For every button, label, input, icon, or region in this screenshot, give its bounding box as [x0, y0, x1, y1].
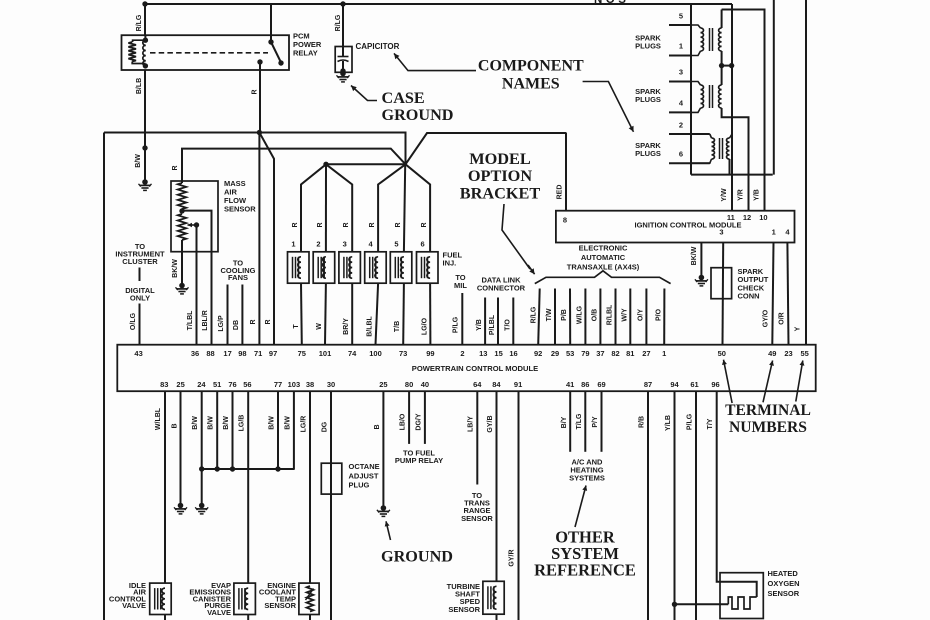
- annotation arrow to spark plugs (component names): [583, 82, 634, 132]
- MAF resistor lower (potentiometer): [178, 214, 186, 240]
- wire W injector 2 to PCM: [324, 283, 327, 345]
- svg-text:Y: Y: [795, 326, 802, 331]
- svg-text:R/LG: R/LG: [136, 14, 143, 31]
- svg-text:SENSOR: SENSOR: [264, 601, 296, 610]
- wire R relay output down to bus junction: [259, 62, 261, 133]
- svg-text:71: 71: [254, 349, 262, 358]
- MAF junction dot: [179, 208, 184, 213]
- svg-text:CAPICITOR: CAPICITOR: [356, 42, 400, 51]
- svg-text:SENSOR: SENSOR: [461, 514, 493, 523]
- svg-text:73: 73: [399, 349, 407, 358]
- fuel injector 1: [288, 252, 310, 283]
- wire R/LBL transaxle to PCM: [615, 289, 617, 345]
- svg-text:PLUGS: PLUGS: [635, 41, 661, 50]
- junction dot 24: [199, 466, 204, 471]
- wire BK/W ICM to ground: [700, 243, 702, 277]
- ground for PCM 25 second: [381, 505, 387, 511]
- svg-text:PLUGS: PLUGS: [635, 149, 661, 158]
- svg-text:O/Y: O/Y: [637, 309, 644, 321]
- svg-text:101: 101: [319, 349, 332, 358]
- wire DG PCM 30: [330, 391, 332, 620]
- ground for ICM: [699, 275, 705, 281]
- wire coil 1-5 primary to Y/B drop: [722, 10, 765, 175]
- svg-text:OPTION: OPTION: [468, 166, 532, 185]
- relay coil: [144, 36, 146, 40]
- wire P/Y PCM 69 to A/C: [601, 391, 603, 452]
- svg-text:79: 79: [581, 349, 589, 358]
- valve EVAP EMISSIONS CANISTER PURGE box: [234, 583, 256, 614]
- wire R to PCM terminal 71: [258, 133, 260, 345]
- svg-text:W/LG: W/LG: [576, 305, 583, 324]
- wire B/W PCM 103: [293, 391, 296, 469]
- svg-text:2: 2: [460, 349, 464, 358]
- svg-text:49: 49: [768, 349, 776, 358]
- svg-text:6: 6: [679, 150, 683, 159]
- wire P/LG PCM 61: [695, 391, 697, 620]
- svg-text:B: B: [374, 424, 381, 429]
- svg-text:B/Y: B/Y: [561, 416, 568, 428]
- junction dot O2 signal: [672, 602, 677, 607]
- junction dot R / bracket bus: [257, 130, 262, 135]
- svg-text:96: 96: [711, 380, 719, 389]
- wire O/R ICM 4 to PCM 23: [787, 243, 788, 345]
- svg-text:92: 92: [534, 349, 542, 358]
- annotation arrow to terminal 50: [724, 360, 733, 403]
- svg-text:17: 17: [223, 349, 231, 358]
- svg-text:VALVE: VALVE: [122, 601, 146, 610]
- svg-text:R: R: [395, 222, 402, 227]
- wire O2 signal to sensor: [675, 603, 729, 605]
- module U2 IGNITION CONTROL MODULE box: [556, 211, 795, 243]
- svg-text:10: 10: [759, 213, 767, 222]
- wire feed to injector 4: [378, 164, 405, 252]
- wire Y/W to ICM 11: [731, 175, 733, 211]
- capacitor case ground dot: [340, 68, 345, 73]
- svg-text:82: 82: [611, 349, 619, 358]
- svg-text:R/LBL: R/LBL: [607, 304, 614, 325]
- svg-text:3: 3: [343, 240, 347, 249]
- junction dot 76: [230, 466, 235, 471]
- svg-text:100: 100: [369, 349, 382, 358]
- svg-text:P/LG: P/LG: [687, 413, 694, 430]
- svg-text:R/B: R/B: [639, 416, 646, 428]
- spark plug terminal 6 stub: [669, 162, 710, 164]
- svg-text:12: 12: [743, 213, 751, 222]
- svg-text:CONNECTOR: CONNECTOR: [477, 283, 526, 292]
- svg-text:B/W: B/W: [223, 416, 230, 430]
- wire BR/Y injector 3 to PCM: [351, 283, 353, 345]
- annotation arrow to A/C systems: [575, 486, 586, 528]
- svg-text:8: 8: [563, 216, 567, 225]
- svg-text:MIL: MIL: [454, 281, 467, 290]
- svg-text:LG/P: LG/P: [218, 315, 225, 332]
- fuel injector 6: [417, 252, 439, 283]
- svg-text:INJ.: INJ.: [443, 259, 457, 268]
- coil pack outer box left edge: [690, 4, 692, 175]
- wire B/W PCM 77: [277, 391, 279, 469]
- svg-text:80: 80: [405, 380, 413, 389]
- svg-text:53: 53: [566, 349, 574, 358]
- svg-text:B/LBL: B/LBL: [367, 315, 374, 336]
- junction dot bus / R-LG relay feed: [142, 1, 147, 6]
- svg-text:NOS: NOS: [594, 0, 629, 6]
- svg-text:R: R: [317, 222, 324, 227]
- svg-text:HEATED: HEATED: [768, 569, 799, 578]
- spark plug terminal 4 stub: [669, 111, 691, 113]
- svg-text:91: 91: [514, 380, 522, 389]
- svg-text:74: 74: [348, 349, 357, 358]
- svg-text:1: 1: [679, 42, 683, 51]
- wire LB/Y PCM 64 to trans range sensor: [476, 391, 478, 484]
- wire feed to injector 1: [301, 164, 326, 252]
- wire bracket top edge (model option bracket): [104, 133, 406, 165]
- svg-text:41: 41: [566, 380, 574, 389]
- annotation arrow to capacitor (component names): [394, 53, 476, 70]
- svg-text:B/W: B/W: [192, 416, 199, 430]
- relay dashed link: [150, 52, 268, 54]
- wire LG/B PCM 56 to EVAP valve: [247, 391, 249, 583]
- wire B/W ground bus: [202, 468, 295, 470]
- svg-text:B/W: B/W: [135, 154, 142, 168]
- junction dot bus / R-LG capacitor feed: [340, 1, 345, 6]
- svg-text:PLUGS: PLUGS: [635, 95, 661, 104]
- svg-text:MODEL: MODEL: [469, 149, 531, 168]
- wire R branch to PCM terminal 97: [259, 133, 274, 345]
- svg-text:LG/R: LG/R: [301, 416, 308, 433]
- wire T/LBL MAF to PCM 36: [196, 252, 198, 345]
- capacitor C1 box: [335, 47, 352, 73]
- wire Y/LB PCM 94: [674, 391, 676, 620]
- svg-text:16: 16: [509, 349, 517, 358]
- svg-text:R: R: [369, 222, 376, 227]
- spark plug terminal 5 stub: [669, 24, 691, 26]
- ground for relay B/W: [142, 179, 148, 185]
- case ground symbol: [340, 71, 346, 77]
- wire O/Y transaxle to PCM: [645, 289, 647, 345]
- wire T/O data link connector to PCM: [512, 298, 514, 345]
- svg-text:30: 30: [327, 380, 335, 389]
- svg-text:W: W: [316, 323, 323, 330]
- relay K1 PCM POWER RELAY box: [122, 35, 290, 70]
- wire W/Y transaxle to PCM: [629, 289, 631, 345]
- wire R from bus to MAF sensor: [182, 149, 406, 183]
- annotation arrow to terminal 55: [796, 361, 803, 402]
- svg-text:Y/R: Y/R: [738, 189, 745, 201]
- svg-text:B/W: B/W: [285, 416, 292, 430]
- wire ignition supply drop: [731, 4, 733, 175]
- wire Y/B to ICM 10: [764, 175, 766, 211]
- svg-text:25: 25: [176, 380, 184, 389]
- svg-text:25: 25: [379, 380, 387, 389]
- svg-text:OCTANE: OCTANE: [349, 462, 380, 471]
- junction dot 51: [215, 466, 220, 471]
- svg-text:B: B: [172, 423, 179, 428]
- sensor MASS AIR FLOW box: [171, 181, 218, 252]
- svg-text:84: 84: [492, 380, 501, 389]
- svg-text:P/LG: P/LG: [453, 316, 460, 333]
- svg-text:O/B: O/B: [591, 309, 598, 321]
- svg-text:P/O: P/O: [655, 308, 662, 321]
- wire P/LBL data link connector to PCM: [497, 298, 499, 345]
- svg-text:11: 11: [727, 213, 735, 222]
- svg-text:R: R: [172, 165, 179, 170]
- relay switch: [268, 39, 273, 44]
- svg-text:COMPONENT: COMPONENT: [478, 58, 584, 75]
- svg-text:LG/B: LG/B: [239, 415, 246, 432]
- svg-text:6: 6: [421, 240, 425, 249]
- connector SPARK OUTPUT CHECK CONN box: [711, 268, 732, 299]
- svg-text:CONN: CONN: [738, 292, 760, 301]
- MAF wiper: [194, 222, 199, 227]
- MAF branch to terminal 88: [182, 211, 212, 252]
- svg-text:56: 56: [243, 380, 251, 389]
- svg-text:NAMES: NAMES: [502, 76, 560, 93]
- wire BK/W MAF to ground: [181, 240, 183, 284]
- wire DB to PCM 98: [241, 285, 243, 345]
- wire bracket left edge: [103, 133, 105, 620]
- svg-text:R: R: [250, 319, 257, 324]
- wire LG/P to PCM 17: [227, 285, 229, 345]
- wire B/W PCM 51: [216, 391, 218, 469]
- svg-text:99: 99: [426, 349, 434, 358]
- wire DG/Y PCM 40 to fuel pump relay: [424, 391, 426, 444]
- wire T/Y PCM 96 to oxygen sensor: [717, 391, 757, 597]
- svg-text:OXYGEN: OXYGEN: [768, 579, 800, 588]
- fuel injector 3: [339, 252, 361, 283]
- wire feed to injector 3: [326, 164, 352, 252]
- wire W/LG transaxle to PCM: [584, 289, 586, 345]
- wire O/LG to PCM 43: [139, 304, 141, 345]
- svg-text:75: 75: [298, 349, 306, 358]
- ignition coil 3-4 secondary: [691, 82, 701, 86]
- svg-text:GROUND: GROUND: [382, 106, 454, 124]
- ground for MAF: [179, 283, 185, 289]
- svg-text:43: 43: [134, 349, 142, 358]
- spark plug terminal 1 stub: [669, 55, 691, 57]
- fuel injector 5: [390, 252, 412, 283]
- svg-text:76: 76: [228, 380, 236, 389]
- svg-text:36: 36: [191, 349, 199, 358]
- svg-text:1: 1: [772, 228, 776, 237]
- svg-text:R: R: [292, 222, 299, 227]
- svg-text:W/Y: W/Y: [621, 308, 628, 322]
- wire B/LBL injector 4 to PCM: [376, 283, 379, 345]
- wire B PCM 25 to ground: [180, 391, 182, 504]
- svg-text:LB/Y: LB/Y: [468, 416, 475, 432]
- svg-text:3: 3: [719, 228, 723, 237]
- svg-text:51: 51: [213, 380, 221, 389]
- ignition coil 2-6 primary: [730, 134, 733, 138]
- junction dot 77: [275, 466, 280, 471]
- ground for PCM 25: [178, 503, 184, 509]
- wire P/LG to PCM 2: [461, 293, 463, 345]
- module U1 POWERTRAIN CONTROL MODULE box: [117, 345, 815, 392]
- svg-text:BR/Y: BR/Y: [343, 318, 350, 335]
- svg-text:FANS: FANS: [228, 273, 248, 282]
- svg-text:DG: DG: [322, 421, 329, 432]
- junction dot injector feed group 1-3: [323, 162, 328, 167]
- wire R/LG to capacitor: [342, 4, 344, 47]
- svg-text:T/Y: T/Y: [707, 418, 714, 429]
- svg-text:27: 27: [642, 349, 650, 358]
- wire injector feed crossbar: [326, 163, 406, 165]
- wire GY/O ICM 1 to PCM 49: [772, 243, 773, 345]
- svg-text:DB: DB: [233, 320, 240, 330]
- svg-text:GROUND: GROUND: [381, 548, 453, 566]
- svg-text:SYSTEMS: SYSTEMS: [569, 473, 605, 482]
- svg-text:5: 5: [679, 12, 683, 21]
- svg-text:1: 1: [662, 349, 666, 358]
- svg-text:94: 94: [670, 380, 679, 389]
- fragment of cropped text at top edge: [594, 0, 629, 6]
- svg-text:RELAY: RELAY: [293, 49, 318, 58]
- wire GY/B PCM 84 to turbine shaft speed sensor: [496, 391, 498, 581]
- wire P/O transaxle to PCM: [663, 289, 665, 345]
- svg-text:2: 2: [679, 121, 683, 130]
- svg-text:O/R: O/R: [779, 312, 786, 324]
- wire feed to injector 6: [406, 164, 431, 252]
- svg-text:PUMP RELAY: PUMP RELAY: [395, 456, 443, 465]
- svg-text:1: 1: [291, 240, 295, 249]
- svg-text:Y/LB: Y/LB: [665, 415, 672, 431]
- svg-text:64: 64: [473, 380, 482, 389]
- svg-text:T/B: T/B: [394, 321, 401, 332]
- svg-text:5: 5: [394, 240, 398, 249]
- ignition coil 3-4 core: [709, 85, 711, 108]
- svg-text:GY/B: GY/B: [487, 415, 494, 432]
- annotation arrow to case ground: [351, 86, 377, 101]
- svg-text:87: 87: [644, 380, 652, 389]
- wire GY/R PCM 91: [518, 391, 520, 620]
- svg-text:83: 83: [160, 380, 168, 389]
- svg-text:29: 29: [551, 349, 559, 358]
- wire O/B transaxle to PCM: [599, 289, 601, 345]
- svg-text:55: 55: [801, 349, 809, 358]
- svg-text:BRACKET: BRACKET: [460, 184, 541, 203]
- svg-text:GY/O: GY/O: [763, 309, 770, 327]
- svg-text:97: 97: [269, 349, 277, 358]
- wire EVAP valve lower stub: [247, 615, 249, 620]
- svg-text:2: 2: [316, 240, 320, 249]
- svg-text:POWERTRAIN CONTROL MODULE: POWERTRAIN CONTROL MODULE: [412, 364, 538, 373]
- annotation arrow to option bracket: [502, 204, 530, 269]
- svg-text:R: R: [343, 222, 350, 227]
- wire idle air valve lower stub: [164, 615, 166, 620]
- svg-text:SENSOR: SENSOR: [768, 589, 800, 598]
- oxygen sensor heater element: [728, 597, 756, 609]
- svg-text:CASE: CASE: [382, 89, 425, 107]
- svg-text:LG/O: LG/O: [421, 317, 428, 335]
- wire P/B transaxle to PCM: [569, 289, 571, 345]
- svg-text:AUTOMATIC: AUTOMATIC: [581, 253, 626, 262]
- svg-text:W/LBL: W/LBL: [155, 407, 162, 430]
- wire feed to injector 2: [325, 164, 327, 252]
- svg-text:ELECTRONIC: ELECTRONIC: [579, 244, 628, 253]
- sensor TURBINE SHAFT SPEED box: [483, 581, 504, 614]
- wire B/W PCM 76: [232, 391, 234, 469]
- svg-text:50: 50: [718, 349, 726, 358]
- svg-text:R: R: [421, 222, 428, 227]
- junction dots coil supply: [719, 63, 724, 68]
- svg-text:ADJUST: ADJUST: [349, 472, 379, 481]
- wire ICM 3 to PCM 50: [722, 243, 725, 345]
- svg-text:81: 81: [626, 349, 634, 358]
- svg-text:77: 77: [274, 380, 282, 389]
- svg-text:R: R: [252, 89, 259, 94]
- ignition coil 3-4 primary: [721, 66, 723, 85]
- wire T/LG PCM 86 to A/C: [584, 391, 586, 452]
- svg-text:BK/W: BK/W: [172, 259, 179, 278]
- wire B/LB relay to ground: [144, 70, 146, 181]
- wire LG/R PCM 38 to coolant temp sensor: [309, 391, 311, 583]
- fuel injector 4: [365, 252, 387, 283]
- svg-text:24: 24: [197, 380, 206, 389]
- wire RED to ignition control module: [565, 133, 567, 211]
- wire LB/O PCM 80 to fuel pump relay: [408, 391, 410, 444]
- annotation arrow to terminal 49: [763, 361, 773, 403]
- svg-text:B/W: B/W: [208, 416, 215, 430]
- svg-text:88: 88: [206, 349, 214, 358]
- wire LBL/R MAF to PCM 88: [211, 252, 213, 345]
- wire feed to injector 5: [404, 164, 405, 252]
- connector OCTANE ADJUST PLUG box: [321, 463, 342, 494]
- wire to instrument cluster (upper stub): [139, 268, 141, 282]
- ignition coil 1-5 core: [709, 28, 711, 51]
- svg-text:SENSOR: SENSOR: [224, 205, 256, 214]
- wire turbine sensor lower stub: [496, 614, 498, 620]
- svg-text:BK/W: BK/W: [691, 246, 698, 265]
- wire B PCM 25 (second) to ground: [382, 391, 384, 506]
- annotation arrow to ground: [386, 521, 391, 540]
- wire LG/O injector 6 to PCM: [429, 283, 431, 345]
- bracket transaxle group: [535, 271, 671, 284]
- svg-text:T/O: T/O: [504, 319, 511, 331]
- spark plug terminal 2 stub: [669, 133, 710, 135]
- wire W/LBL PCM 83 to idle air control valve: [164, 391, 166, 583]
- svg-text:Y/B: Y/B: [476, 319, 483, 331]
- wire R/B PCM 87: [647, 391, 649, 620]
- svg-text:TERMINAL: TERMINAL: [725, 402, 811, 419]
- coil pack outer box bottom edge: [691, 174, 773, 176]
- svg-text:P/B: P/B: [561, 309, 568, 321]
- svg-text:103: 103: [288, 380, 301, 389]
- svg-text:ONLY: ONLY: [130, 294, 150, 303]
- sensor ENGINE COOLANT TEMP box: [299, 583, 319, 614]
- svg-text:T/LBL: T/LBL: [187, 310, 194, 331]
- svg-text:B/W: B/W: [269, 416, 276, 430]
- svg-text:B/LB: B/LB: [136, 78, 143, 94]
- wire Y/B data link connector to PCM: [484, 298, 486, 345]
- spark plug terminal 3 stub: [669, 81, 691, 83]
- svg-text:GY/R: GY/R: [509, 549, 516, 566]
- ignition coil 2-6 secondary: [710, 134, 712, 138]
- svg-text:LB/O: LB/O: [400, 413, 407, 430]
- ground for B/W bus: [199, 503, 205, 509]
- wire R/LG transaxle to PCM: [538, 289, 540, 345]
- svg-text:P/Y: P/Y: [592, 416, 599, 428]
- svg-text:PLUG: PLUG: [349, 481, 370, 490]
- svg-text:Y/W: Y/W: [721, 188, 728, 202]
- svg-text:NUMBERS: NUMBERS: [729, 419, 807, 436]
- svg-text:T: T: [293, 324, 300, 329]
- ignition coil 2-6 core: [719, 138, 721, 159]
- svg-text:IGNITION CONTROL MODULE: IGNITION CONTROL MODULE: [635, 221, 742, 230]
- sensor HEATED OXYGEN box: [720, 573, 763, 619]
- svg-text:37: 37: [596, 349, 604, 358]
- wire Y/R to ICM 12: [748, 175, 750, 211]
- wire T/B injector 5 to PCM: [402, 283, 405, 345]
- svg-text:23: 23: [784, 349, 792, 358]
